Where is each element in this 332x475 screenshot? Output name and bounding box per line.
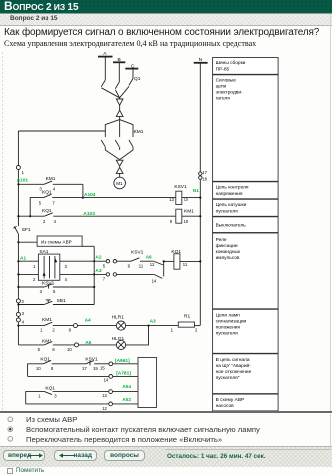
svg-text:A4: A4 [85,317,91,323]
svg-text:A5: A5 [85,340,91,346]
net label A104 [84,192,96,198]
node panel: lamp circuits [213,309,279,353]
svg-text:сигнализации: сигнализации [216,319,247,324]
svg-text:11: 11 [183,262,188,267]
wire KM1 row bend down [82,184,84,198]
node bus N [194,57,208,63]
svg-text:17: 17 [82,366,87,371]
breaker SF1 [13,226,31,233]
svg-text:1: 1 [38,394,41,399]
svg-text:KM1: KM1 [184,208,194,214]
node box: from AVR scheme [37,236,94,246]
svg-text:Цепь катушки: Цепь катушки [216,202,247,208]
contact KM1 1-2 [17,317,73,332]
terminal 1 [16,166,24,176]
svg-text:10: 10 [67,347,72,352]
resistor R1 [171,313,201,332]
node panel: voltage control circuit [213,182,279,199]
svg-text:Из схемы АВР: Из схемы АВР [41,240,72,245]
terminal 17 on N rail [199,170,208,176]
svg-text:2: 2 [52,328,55,333]
contact KM1 5-6 [18,339,74,352]
svg-text:Шины сборки: Шины сборки [216,60,246,66]
svg-text:10: 10 [184,219,189,224]
svg-text:напряжения: напряжения [216,192,243,197]
lamp HLG1 [112,326,149,350]
svg-text:18: 18 [202,177,207,182]
relay coil KM1 [170,208,202,224]
svg-text:14: 14 [152,278,157,283]
net label A5 [85,340,91,346]
node panel: emergency trip signal [213,354,279,394]
svg-text:Q1: Q1 [134,76,141,82]
svg-text:R1: R1 [184,313,190,319]
separator above answers [0,411,332,414]
svg-text:пускателя": пускателя" [216,375,240,381]
svg-text:17: 17 [202,170,207,175]
changeover blade 12 [150,261,164,283]
relay coil KQ1 [163,249,202,269]
svg-text:4: 4 [65,277,68,282]
svg-text:4: 4 [53,187,56,192]
svg-text:A3: A3 [95,268,101,274]
svg-text:Выключатель: Выключатель [216,222,247,228]
svg-text:A54: A54 [122,384,131,390]
svg-text:A3: A3 [150,319,156,325]
svg-text:HLR1: HLR1 [112,314,125,320]
svg-text:В схему АВР: В схему АВР [216,397,245,403]
node panel: power circuits [213,75,279,182]
svg-text:SF1: SF1 [22,227,31,233]
svg-text:положения: положения [216,325,241,330]
svg-text:A2: A2 [95,254,101,260]
svg-text:импульсов: импульсов [216,256,240,261]
terminal 18 on N rail [199,176,208,182]
terminal 8 [113,273,154,276]
svg-text:13: 13 [102,393,107,398]
net label A52 [122,397,131,403]
net label N1 [193,188,199,194]
switch SA1 [17,249,67,282]
plug connector lower [116,160,123,177]
contact KSV1 17-19 [82,356,109,371]
svg-text:2: 2 [195,327,198,332]
motor M1 [114,177,126,189]
contact KSV1 9-11 [128,249,154,268]
net label A101 [17,178,29,184]
svg-text:Силовые: Силовые [216,78,237,84]
svg-text:KSV1: KSV1 [174,184,187,190]
svg-text:A101: A101 [17,178,29,184]
svg-text:10: 10 [36,366,41,371]
svg-text:A1: A1 [20,256,26,262]
node panel: starter coil circuit [213,199,279,216]
svg-text:электродви-: электродви- [216,91,243,96]
node bus A [98,51,113,80]
svg-text:A103: A103 [83,211,95,217]
net label A6 [146,254,152,260]
svg-text:KM1: KM1 [134,129,144,135]
svg-text:9: 9 [128,263,131,268]
wire loop1 bottom [28,375,109,377]
wire SA1 row1 [60,260,106,262]
svg-text:2: 2 [43,219,46,224]
svg-text:C: C [131,63,135,69]
terminal 10 [67,343,116,352]
svg-text:B: B [118,57,121,63]
wire converge to motor [105,150,133,160]
svg-text:1: 1 [33,264,36,269]
svg-text:15: 15 [100,365,105,370]
disconnector Q1 [101,76,141,98]
svg-text:ПР-85: ПР-85 [216,67,230,73]
terminal 15 [109,362,138,366]
terminal 14 [104,375,138,383]
terminal 12 [102,402,138,411]
terminal 4 [16,318,24,325]
plug connector upper [116,98,123,120]
net label A961 [115,358,130,364]
svg-text:пускателя: пускателя [216,209,239,214]
svg-text:19: 19 [93,366,98,371]
wire loop2 bottom [26,403,109,405]
svg-text:1: 1 [171,327,174,332]
wire feeder vertical [93,246,95,304]
svg-text:11: 11 [139,263,144,268]
svg-text:12: 12 [150,262,155,267]
svg-text:5: 5 [38,347,41,352]
terminal 5 [103,260,110,269]
svg-text:9: 9 [69,328,72,333]
svg-text:13: 13 [169,197,174,202]
svg-text:на ЩУ "Аварий-: на ЩУ "Аварий- [216,362,252,369]
contactor KM1 main contacts [101,129,144,150]
svg-text:3: 3 [40,289,43,294]
question text [4,27,332,38]
svg-text:ное отключение: ное отключение [216,370,252,375]
wire split to contactor [105,120,133,137]
node output box [138,358,157,408]
svg-text:3: 3 [65,264,68,269]
terminal 7 [103,273,110,282]
svg-text:SB1: SB1 [57,298,66,304]
svg-text:7: 7 [52,201,55,206]
svg-text:2: 2 [33,277,36,282]
relay coil KSV1 [169,184,201,205]
wire left rail [17,131,19,345]
button SB1 [17,298,94,306]
svg-text:A52: A52 [122,397,131,403]
svg-text:цепи: цепи [216,85,227,90]
svg-text:N1: N1 [193,188,199,194]
nav bar [0,446,332,467]
terminal 13 [102,390,138,399]
node panel: breaker [213,217,279,233]
terminal 3 [16,311,24,316]
net label A2 [95,254,101,260]
svg-text:[A961]: [A961] [115,358,130,364]
node bus C [125,63,138,78]
net label A3b [150,319,156,325]
svg-text:A104: A104 [84,192,96,198]
lamp HLR1 [112,314,179,330]
node panel: bus assembly [213,58,279,75]
svg-text:1: 1 [40,328,43,333]
contact KQ1 1-3 [26,385,109,404]
svg-text:N: N [199,57,203,63]
svg-text:7: 7 [103,277,106,282]
net label A54 [122,384,131,390]
terminal 9 [69,324,117,333]
svg-text:3: 3 [22,311,25,316]
contact KQ1 2-4 [17,208,176,224]
svg-text:гателя: гателя [216,97,231,102]
svg-text:4: 4 [54,219,57,224]
contact KQ1 5-7 [29,190,176,218]
node panel: command pulse relay [213,233,279,309]
top green title bar [0,0,332,14]
svg-text:M1: M1 [116,181,123,186]
svg-text:пускателя: пускателя [216,331,239,336]
terminal 6 [113,260,131,263]
svg-text:A6: A6 [146,254,152,260]
svg-text:фиксации: фиксации [216,243,238,249]
sub header strip [0,14,332,26]
contact KQ1 10-8 [28,356,86,376]
svg-text:5: 5 [39,201,42,206]
wire N rail [199,63,201,325]
wire cubicle dashed boundary [2,52,4,410]
wire control tap [18,130,105,132]
svg-text:Цепь контроля: Цепь контроля [216,184,249,190]
svg-text:4: 4 [22,319,25,324]
net label A781 [116,371,131,377]
svg-text:1: 1 [22,170,25,175]
net label A4 [85,317,91,323]
wire SA1 row2 [60,273,106,275]
svg-text:[A781]: [A781] [116,371,131,377]
net label A1 [20,256,26,262]
answers [0,414,332,446]
svg-text:5: 5 [53,289,56,294]
svg-text:KSV1: KSV1 [131,249,144,255]
svg-text:В цепь сигнала: В цепь сигнала [216,357,250,363]
node panel: to AVR scheme [213,394,279,411]
svg-text:командных: командных [216,250,241,255]
net label A103 [83,211,95,217]
svg-text:6: 6 [52,347,55,352]
net label A3 [95,268,101,274]
svg-text:насосов: насосов [216,404,235,409]
svg-text:3: 3 [54,394,57,399]
checkbox row [7,468,13,474]
wire to AVR box [17,241,37,243]
contact KM1 3-4 [17,176,83,192]
svg-text:Цепи ламп: Цепи ламп [216,312,241,318]
svg-text:KQ1: KQ1 [45,385,55,391]
svg-text:KM1: KM1 [42,317,52,323]
svg-text:9: 9 [170,219,173,224]
node bus B [113,57,125,82]
contact KSV1 3-5 [17,281,94,294]
terminal 2 [16,299,24,304]
svg-text:2: 2 [22,299,25,304]
svg-text:14: 14 [104,377,109,382]
svg-text:5: 5 [103,263,106,268]
svg-text:8: 8 [51,366,54,371]
svg-text:Реле: Реле [216,237,227,243]
